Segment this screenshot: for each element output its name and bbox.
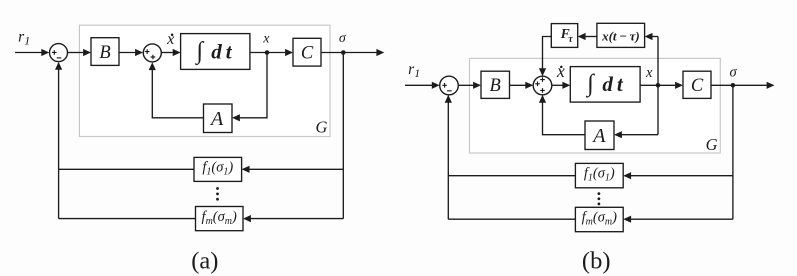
svg-text:σ: σ — [339, 31, 347, 46]
svg-text:C: C — [691, 76, 704, 96]
svg-text:x(t − τ): x(t − τ) — [601, 28, 640, 43]
svg-text:G: G — [706, 135, 718, 154]
svg-text:x: x — [262, 31, 270, 46]
svg-text:x: x — [645, 65, 653, 81]
svg-text:G: G — [316, 118, 328, 137]
svg-text:x: x — [556, 61, 565, 81]
svg-text:C: C — [301, 44, 314, 64]
svg-text:(b): (b) — [582, 248, 611, 275]
svg-text:x: x — [166, 31, 174, 48]
svg-text:∫: ∫ — [585, 70, 595, 98]
svg-text:A: A — [591, 125, 606, 147]
svg-text:(a): (a) — [191, 248, 218, 275]
svg-text:∫: ∫ — [194, 37, 204, 65]
svg-text:σ: σ — [730, 64, 738, 80]
svg-text:A: A — [209, 108, 224, 130]
svg-text:B: B — [99, 43, 110, 63]
svg-text:B: B — [490, 76, 501, 96]
